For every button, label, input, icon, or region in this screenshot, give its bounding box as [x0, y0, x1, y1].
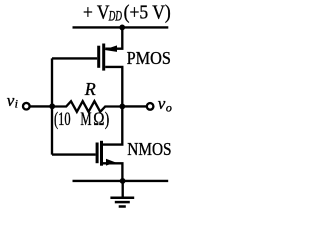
label +VDD (+5 V) [83, 3, 171, 25]
NMOS drain lead [103, 106, 122, 144]
label vi [7, 91, 18, 111]
NMOS gate bar [96, 143, 99, 164]
NMOS gate lead [52, 153, 96, 155]
transistor Q1 PMOS [52, 44, 122, 107]
node output junction dot [119, 104, 125, 110]
wire gate branch vertical [51, 58, 53, 154]
NMOS source arrow [106, 159, 116, 166]
NMOS channel bar [100, 141, 103, 166]
node input junction dot [49, 103, 55, 109]
wire output [122, 105, 146, 107]
svg-text:Ω: Ω [93, 110, 104, 130]
svg-text:DD: DD [108, 9, 122, 25]
wire bottom rail [73, 180, 169, 182]
ground bar 2 [115, 201, 130, 204]
svg-text:v: v [7, 91, 15, 110]
wire VDD rail [73, 26, 169, 28]
ground bar 3 [119, 205, 126, 208]
svg-text:+ V: + V [83, 3, 110, 24]
NMOS source lead [103, 163, 122, 181]
svg-text:NMOS: NMOS [127, 139, 171, 159]
svg-text:i: i [15, 97, 18, 111]
ground stem [122, 181, 124, 198]
transistor Q2 NMOS [52, 106, 122, 180]
svg-text:(10: (10 [54, 110, 71, 130]
PMOS source arrow [104, 45, 117, 52]
input terminal circle [23, 103, 30, 110]
node junction dot on VDD rail [119, 25, 125, 31]
svg-text:R: R [84, 79, 96, 99]
svg-text:(+5 V): (+5 V) [124, 3, 171, 24]
ground bar 1 [110, 196, 134, 199]
wire input to gate node [30, 105, 52, 107]
svg-text:M: M [80, 110, 91, 130]
output terminal circle [147, 103, 154, 110]
resistor R [52, 101, 122, 112]
label vo [158, 94, 172, 114]
PMOS gate bar [97, 46, 100, 68]
PMOS channel bar [102, 44, 105, 71]
svg-text:v: v [158, 94, 166, 113]
wire PMOS source to VDD [105, 27, 122, 48]
svg-text:o: o [166, 100, 172, 114]
svg-text:PMOS: PMOS [127, 48, 171, 68]
PMOS drain lead [105, 67, 122, 107]
PMOS gate lead [52, 57, 97, 59]
ground [110, 181, 134, 207]
svg-text:): ) [105, 110, 110, 130]
label (10 M ohm) [54, 110, 109, 130]
node ground junction dot [120, 178, 126, 184]
